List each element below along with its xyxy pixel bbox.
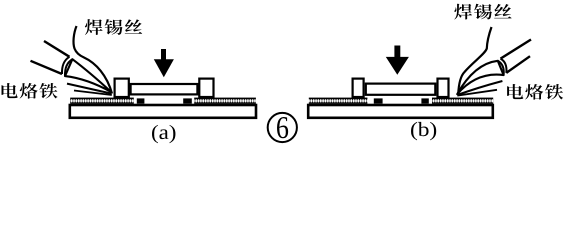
component body (b): [366, 84, 436, 95]
solder paste strip left segment (a): [70, 98, 134, 104]
solder fillet line 1 (b): [457, 81, 502, 95]
PCB board (a): [70, 105, 256, 118]
soldering iron tip cone (a): [65, 59, 111, 92]
left pad (a): [137, 98, 145, 103]
caption (b): [411, 122, 436, 140]
label soldering-iron text (b): [507, 84, 563, 100]
solder paste strip right segment (b): [432, 98, 493, 104]
press arrow (b): [386, 46, 409, 75]
component right lead (a): [199, 79, 213, 97]
solder wire (a): [74, 26, 112, 94]
solder fillet line 1 (a): [67, 84, 112, 94]
right pad (b): [421, 98, 428, 103]
soldering iron handle top edge (b): [501, 40, 532, 59]
soldering iron collar arc 2 (b): [498, 61, 504, 75]
right pad (a): [183, 98, 192, 103]
soldering iron collar arc 2 (a): [65, 59, 72, 76]
component left lead (b): [353, 79, 364, 97]
component right lead (b): [438, 79, 449, 97]
left pad (b): [374, 98, 383, 103]
solder fillet line 2 (b): [457, 90, 497, 96]
PCB board (b): [308, 105, 493, 118]
label solder-wire text (b): [454, 4, 511, 20]
label solder-wire text (a): [85, 19, 142, 35]
circle of numbered callout 6: [268, 113, 297, 142]
solder paste strip right segment (a): [194, 98, 256, 104]
label soldering-iron text (a): [2, 83, 58, 99]
solder wire (b): [458, 27, 491, 95]
solder fillet line 2 (a): [74, 91, 112, 96]
soldering iron handle bottom edge (b): [506, 56, 530, 73]
press arrow (a): [154, 49, 174, 77]
caption (a): [152, 125, 175, 143]
soldering iron tip cone (b): [457, 61, 503, 94]
component body (a): [131, 84, 198, 94]
soldering iron handle bottom edge (a): [31, 61, 63, 74]
soldering iron collar arc 1 (a): [62, 57, 70, 74]
solder paste strip left segment (b): [309, 98, 368, 104]
soldering iron collar arc 1 (b): [501, 59, 507, 73]
digit 6: [277, 117, 288, 138]
soldering iron handle top edge (a): [44, 41, 70, 57]
component left lead (a): [115, 79, 129, 97]
